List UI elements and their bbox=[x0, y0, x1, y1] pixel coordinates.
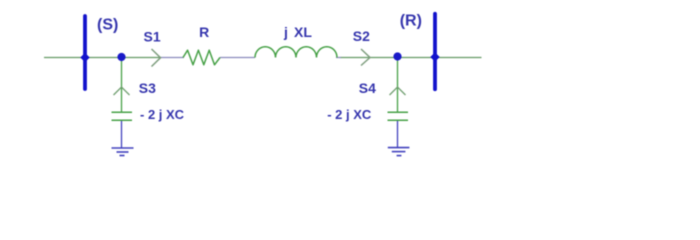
svg-text:- 2 j XC: - 2 j XC bbox=[140, 107, 185, 122]
svg-text:S3: S3 bbox=[139, 80, 156, 96]
svg-text:XL: XL bbox=[294, 24, 312, 40]
svg-text:R: R bbox=[199, 24, 209, 40]
svg-text:S1: S1 bbox=[144, 28, 161, 44]
svg-text:S4: S4 bbox=[359, 80, 376, 96]
svg-text:(R): (R) bbox=[400, 13, 422, 30]
svg-text:j: j bbox=[283, 24, 288, 40]
svg-text:(S): (S) bbox=[97, 16, 118, 33]
svg-text:- 2 j XC: - 2 j XC bbox=[327, 107, 372, 122]
svg-text:S2: S2 bbox=[353, 28, 370, 44]
